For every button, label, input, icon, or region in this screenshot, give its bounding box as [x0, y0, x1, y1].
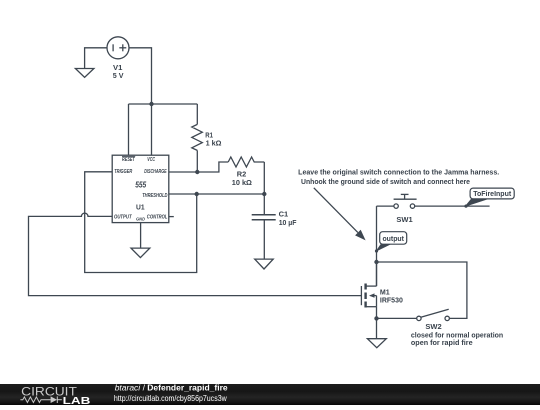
svg-text:OUTPUT: OUTPUT: [114, 215, 132, 221]
wire CONTROL stub: [169, 216, 174, 218]
wire SW1 vertical drop to drain: [376, 206, 378, 286]
label U1: [136, 204, 145, 211]
svg-text:GND: GND: [136, 217, 146, 222]
transistor M1 IRF530: [361, 262, 376, 318]
wire to VCC pin: [151, 104, 153, 155]
wire DISCHARGE line: [169, 162, 228, 172]
ground (V1): [75, 69, 94, 78]
wire V1 right lead to VCC rail: [129, 48, 152, 104]
label 555: [135, 180, 146, 190]
svg-text:DISCHARGE: DISCHARGE: [144, 169, 167, 175]
voltage source V1: [107, 37, 129, 59]
svg-text:1 kΩ: 1 kΩ: [206, 139, 222, 148]
svg-text:THRESHOLD: THRESHOLD: [142, 193, 168, 199]
svg-text:open for rapid fire: open for rapid fire: [411, 340, 473, 347]
node junction R1-discharge: [195, 170, 199, 174]
ground (C1): [255, 259, 274, 269]
flag ToFireInput: [464, 188, 514, 208]
svg-text:U1: U1: [136, 204, 145, 211]
wire GND pin down: [140, 223, 142, 249]
wire source to ground: [376, 318, 378, 338]
svg-text:SW2: SW2: [425, 322, 441, 331]
node junction VCC rail: [149, 102, 153, 106]
wire THRESHOLD line: [169, 193, 264, 195]
logo resistor-diode icon: [20, 396, 61, 403]
label C1 10 uF: [279, 209, 297, 227]
annotation arrow: [314, 188, 366, 241]
wire TRIGGER feedback loop: [85, 172, 197, 273]
label SW1: [396, 215, 412, 224]
svg-text:SW1: SW1: [396, 215, 412, 224]
wire R2 right side down: [263, 162, 265, 194]
ground (U1): [131, 248, 150, 258]
svg-text:http://circuitlab.com/cby856p7: http://circuitlab.com/cby856p7ucs3w: [114, 393, 228, 403]
svg-text:C1: C1: [279, 209, 289, 218]
U1 pin labels: [114, 157, 168, 221]
svg-text:10 µF: 10 µF: [279, 218, 297, 227]
flag output: [375, 232, 407, 253]
svg-text:VCC: VCC: [147, 157, 155, 163]
wire source to SW2: [377, 317, 417, 319]
node junction threshold-feedback: [195, 192, 199, 196]
svg-text:CONTROL: CONTROL: [147, 215, 168, 221]
svg-text:RESET: RESET: [122, 157, 135, 163]
footer bar: [0, 384, 540, 405]
svg-text:10 kΩ: 10 kΩ: [232, 178, 252, 187]
wire VCC rail horizontal: [129, 103, 198, 105]
ground (M1 source): [367, 339, 386, 348]
switch SW1 pushbutton: [377, 194, 467, 208]
svg-text:LAB: LAB: [63, 396, 91, 405]
node junction output branch: [374, 260, 378, 264]
svg-text:Unhook the ground side of swit: Unhook the ground side of switch and con…: [301, 179, 470, 186]
svg-text:btaraci / Defender_rapid_fire: btaraci / Defender_rapid_fire: [115, 384, 228, 393]
svg-text:ToFireInput: ToFireInput: [473, 191, 512, 198]
label R1 1 kOhm: [205, 131, 221, 148]
capacitor C1: [252, 194, 276, 259]
resistor R1: [192, 104, 203, 172]
wire OUTPUT with hop to gate: [29, 213, 362, 296]
switch SW2: [417, 309, 450, 320]
op-amp U1 555 box: [112, 155, 169, 222]
node junction threshold-C1: [262, 192, 266, 196]
label V1 5V: [113, 63, 124, 80]
label M1 IRF530: [380, 288, 403, 305]
label SW2 and notes: [411, 322, 503, 347]
node junction M1 source: [374, 316, 378, 320]
wire right branch to SW2: [377, 262, 467, 318]
svg-text:IRF530: IRF530: [380, 296, 403, 305]
RESET overline: [122, 155, 135, 157]
note text annotation: [298, 170, 499, 187]
svg-text:output: output: [382, 236, 404, 243]
wire to RESET pin: [128, 104, 130, 155]
svg-text:TRIGGER: TRIGGER: [114, 169, 133, 175]
svg-text:5 V: 5 V: [113, 71, 124, 80]
svg-text:555: 555: [135, 180, 146, 190]
wire V1 left lead: [85, 48, 107, 69]
resistor R2: [228, 157, 264, 167]
svg-text:Leave the original switch conn: Leave the original switch connection to …: [298, 170, 499, 177]
svg-text:closed for normal operation: closed for normal operation: [411, 332, 503, 339]
label R2 10 kOhm: [232, 170, 252, 188]
